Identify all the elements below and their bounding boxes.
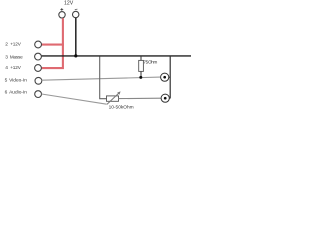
wire black 12V- vertical [75, 18, 77, 56]
wire ground bus [41, 55, 191, 57]
svg-text:4: 4 [5, 65, 8, 71]
svg-text:Video-In: Video-In [9, 78, 27, 84]
wire jack shells to ground [169, 76, 170, 78]
svg-text:12V: 12V [64, 1, 74, 7]
junction video-R1 [139, 76, 142, 79]
wire pot to audio jack [119, 97, 162, 99]
svg-text:75Ohm: 75Ohm [143, 60, 157, 65]
svg-text:3: 3 [5, 55, 8, 61]
terminal pin3 [35, 53, 42, 60]
svg-text:5: 5 [5, 78, 8, 84]
svg-text:10-50kOhm: 10-50kOhm [109, 105, 134, 111]
wire red pin2 [42, 44, 64, 46]
svg-text:2: 2 [5, 42, 8, 48]
resistor R1 75Ohm [140, 56, 142, 60]
jack video out [161, 73, 169, 81]
jack audio out [161, 94, 169, 102]
minus sign [75, 8, 78, 11]
svg-text:+12V: +12V [10, 42, 22, 47]
potentiometer P1 [107, 96, 119, 101]
wire red +12V vertical [42, 18, 63, 68]
svg-text:+12V: +12V [10, 65, 22, 70]
terminal pin6 [35, 91, 42, 98]
junction ground [74, 54, 77, 57]
pot wiper arrow [107, 92, 120, 104]
wire audio diagonal [42, 94, 107, 104]
wire ground right vertical [169, 56, 171, 99]
terminal 12V- [73, 11, 79, 17]
plus sign [60, 8, 63, 11]
wire ground tap to pot [100, 57, 107, 99]
terminal 12V+ [59, 12, 65, 18]
terminal pin4 [35, 65, 42, 72]
svg-text:Masse: Masse [10, 55, 23, 60]
terminal pin2 [35, 41, 42, 48]
svg-text:Audio-In: Audio-In [9, 90, 27, 96]
wire video [42, 77, 161, 80]
svg-text:6: 6 [5, 90, 8, 96]
terminal pin5 [35, 77, 42, 84]
